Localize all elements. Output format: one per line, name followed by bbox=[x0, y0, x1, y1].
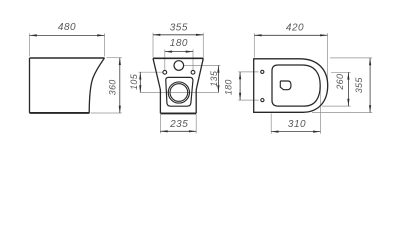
svg-text:180: 180 bbox=[223, 79, 233, 95]
svg-text:480: 480 bbox=[58, 22, 76, 33]
svg-text:135: 135 bbox=[209, 70, 219, 87]
svg-text:360: 360 bbox=[107, 79, 117, 95]
svg-text:420: 420 bbox=[286, 22, 304, 33]
svg-text:180: 180 bbox=[170, 38, 188, 49]
svg-text:105: 105 bbox=[129, 73, 139, 90]
svg-text:355: 355 bbox=[170, 22, 188, 33]
svg-text:260: 260 bbox=[335, 74, 345, 91]
svg-text:355: 355 bbox=[354, 77, 364, 94]
svg-text:310: 310 bbox=[288, 119, 306, 130]
svg-text:235: 235 bbox=[169, 119, 188, 130]
